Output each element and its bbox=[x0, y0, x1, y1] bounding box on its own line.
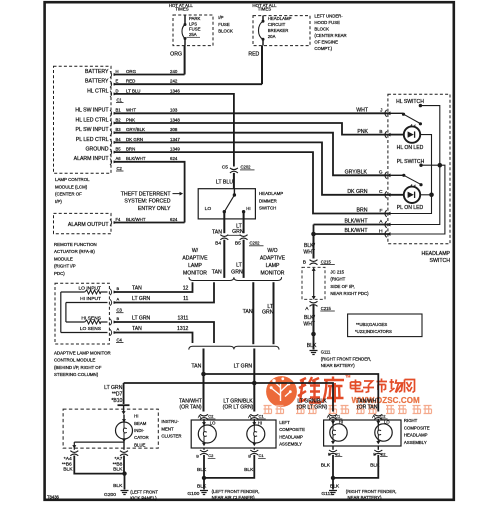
svg-text:F: F bbox=[380, 208, 383, 214]
svg-text:G: G bbox=[379, 170, 383, 176]
svg-text:CIRCUIT: CIRCUIT bbox=[268, 22, 286, 27]
svg-text:I/P): I/P) bbox=[55, 199, 62, 204]
svg-text:RED: RED bbox=[248, 52, 259, 58]
svg-text:BRN: BRN bbox=[126, 147, 135, 152]
svg-text:DIMMER: DIMMER bbox=[259, 198, 277, 203]
svg-text:C1: C1 bbox=[335, 414, 341, 419]
wire LT GRN from HI through C202 bbox=[243, 212, 245, 234]
svg-text:12: 12 bbox=[183, 285, 189, 291]
svg-text:(RIGHT FRONT FENDER,: (RIGHT FRONT FENDER, bbox=[346, 489, 397, 494]
svg-text:WHT: WHT bbox=[126, 108, 136, 113]
left composite headlamp box bbox=[191, 420, 276, 448]
svg-text:TIMES: TIMES bbox=[175, 7, 188, 12]
svg-text:C3: C3 bbox=[117, 308, 123, 313]
svg-text:B5: B5 bbox=[235, 241, 241, 247]
svg-text:(OR TAN): (OR TAN) bbox=[357, 405, 379, 411]
svg-text:308: 308 bbox=[170, 127, 178, 132]
svg-text:103: 103 bbox=[170, 108, 178, 113]
svg-text:1347: 1347 bbox=[170, 137, 180, 142]
svg-text:624: 624 bbox=[170, 217, 178, 222]
svg-text:1311: 1311 bbox=[177, 315, 188, 321]
svg-text:SIDE OF I/P,: SIDE OF I/P, bbox=[330, 284, 354, 289]
svg-text:BLOCK: BLOCK bbox=[314, 27, 329, 32]
svg-text:B5: B5 bbox=[116, 147, 122, 152]
svg-text:ORG: ORG bbox=[170, 51, 182, 57]
wire TAN 12 to option brace bbox=[114, 282, 193, 292]
svg-text:A6: A6 bbox=[116, 156, 122, 161]
svg-text:ASSEMBLY: ASSEMBLY bbox=[404, 440, 427, 445]
wire DK GRN 1347 to HL switch pin C bbox=[114, 142, 404, 194]
wire HI SENS with coil bbox=[66, 321, 85, 323]
svg-text:PL ON LED: PL ON LED bbox=[397, 205, 424, 211]
svg-text:HEADLAMP: HEADLAMP bbox=[268, 16, 292, 21]
svg-text:ENTRY ONLY: ENTRY ONLY bbox=[138, 206, 171, 212]
svg-text:C2: C2 bbox=[208, 414, 214, 419]
svg-text:C1: C1 bbox=[259, 453, 265, 458]
svg-text:COMPOSITE: COMPOSITE bbox=[404, 425, 430, 430]
svg-text:B4: B4 bbox=[116, 137, 122, 142]
svg-text:G200: G200 bbox=[104, 492, 116, 498]
svg-text:INSTRU-: INSTRU- bbox=[161, 419, 179, 424]
svg-text:GRN: GRN bbox=[231, 269, 243, 275]
svg-text:B: B bbox=[303, 260, 306, 266]
svg-text:OF ENGINE: OF ENGINE bbox=[314, 40, 338, 45]
wire PNK 1348 to HL switch pin B bbox=[114, 123, 404, 135]
module adaptive lamp monitor dashed box bbox=[55, 283, 109, 344]
svg-text:E: E bbox=[116, 79, 119, 84]
cluster connector pins A4 B6 bbox=[70, 451, 78, 453]
PL switch contact bbox=[389, 174, 403, 176]
svg-text:C1: C1 bbox=[117, 97, 123, 102]
svg-text:CLUSTER: CLUSTER bbox=[161, 434, 181, 439]
svg-text:STEERING COLUMN): STEERING COLUMN) bbox=[54, 372, 99, 377]
left headlamp connectors A C2 / A C1 bbox=[200, 414, 208, 416]
svg-text:25A: 25A bbox=[189, 32, 197, 37]
svg-text:ADAPTIVE: ADAPTIVE bbox=[182, 256, 208, 262]
svg-text:(OR LT GRN): (OR LT GRN) bbox=[223, 405, 254, 411]
svg-text:240: 240 bbox=[170, 69, 178, 74]
wire RED row E bbox=[114, 83, 263, 85]
svg-text:NEAR BATTERY): NEAR BATTERY) bbox=[348, 495, 383, 500]
svg-text:BEAM: BEAM bbox=[134, 421, 147, 426]
svg-text:W/: W/ bbox=[192, 248, 199, 254]
wire ORG row H bbox=[114, 74, 185, 76]
wire TAN from lower brace to TAN bus bbox=[203, 349, 205, 375]
svg-text:ALARM INPUT: ALARM INPUT bbox=[74, 156, 110, 162]
svg-text:C1: C1 bbox=[335, 451, 341, 456]
svg-text:LT GRN: LT GRN bbox=[132, 296, 151, 302]
svg-text:C2: C2 bbox=[380, 451, 386, 456]
svg-text:GRN: GRN bbox=[262, 310, 274, 316]
switch HL SWITCH dashed box bbox=[388, 94, 450, 244]
switch headlamp dimmer box bbox=[198, 189, 255, 219]
svg-text:**UB3;GAUGES: **UB3;GAUGES bbox=[356, 322, 387, 327]
svg-text:C: C bbox=[379, 189, 383, 195]
svg-text:H: H bbox=[116, 69, 119, 74]
svg-text:BATTERY: BATTERY bbox=[85, 69, 109, 75]
svg-text:LT GRN: LT GRN bbox=[132, 315, 151, 321]
wire LT BLU row D to C202 bbox=[114, 94, 234, 167]
wire HI INPUT bbox=[66, 302, 108, 304]
svg-text:PL LED CTRL: PL LED CTRL bbox=[76, 137, 109, 143]
svg-text:COMPOSITE: COMPOSITE bbox=[279, 427, 305, 432]
upper option brace bbox=[189, 277, 282, 280]
svg-text:LT BLU: LT BLU bbox=[216, 180, 233, 186]
svg-text:(OR LT GRN): (OR LT GRN) bbox=[297, 405, 328, 411]
bulb HI (left) bbox=[253, 419, 255, 426]
HL switch contact bbox=[389, 112, 403, 114]
wire BLK/WHT 624 alarm input bbox=[114, 162, 185, 223]
svg-text:LO: LO bbox=[384, 419, 390, 424]
svg-text:LT BLU: LT BLU bbox=[126, 88, 140, 93]
circuit breaker HEADLAMP CIRCUIT BREAKER 20A bbox=[262, 16, 264, 21]
svg-text:BATTERY: BATTERY bbox=[85, 79, 109, 85]
LED PL ON LED bbox=[389, 194, 404, 196]
fuse PARK LPS FUSE 25A bbox=[184, 15, 186, 24]
svg-text:BLK: BLK bbox=[307, 343, 317, 349]
wire LT GRN from lower brace to LT GRN bus bbox=[253, 349, 255, 384]
svg-text:C202: C202 bbox=[241, 165, 252, 170]
wire GRY/BLK 308 to HL switch pin G bbox=[114, 133, 390, 176]
wire LT GRN 11 to option brace bbox=[114, 282, 215, 302]
I/P fuse block dashed box bbox=[173, 15, 213, 46]
svg-text:CONTROL MODULE: CONTROL MODULE bbox=[54, 358, 95, 363]
svg-text:WHT: WHT bbox=[356, 108, 369, 114]
svg-text:NEAR AIR CLEANER): NEAR AIR CLEANER) bbox=[212, 495, 256, 500]
svg-text:HI: HI bbox=[258, 420, 262, 425]
svg-text:B: B bbox=[379, 129, 382, 135]
svg-text:LO: LO bbox=[205, 206, 212, 212]
svg-text:DK GRN: DK GRN bbox=[347, 189, 367, 195]
svg-text:SWITCH: SWITCH bbox=[430, 258, 451, 264]
svg-text:HL CTRL: HL CTRL bbox=[87, 88, 109, 94]
ground G111 (lower) bbox=[328, 490, 330, 492]
svg-text:BRN: BRN bbox=[357, 208, 368, 214]
svg-text:LT GRN/BLK: LT GRN/BLK bbox=[223, 398, 253, 404]
svg-text:TAN/WHT: TAN/WHT bbox=[179, 398, 202, 404]
svg-text:*A7: *A7 bbox=[115, 456, 123, 462]
svg-text:B: B bbox=[117, 316, 120, 321]
svg-text:ASSEMBLY: ASSEMBLY bbox=[279, 442, 302, 447]
svg-text:TAN: TAN bbox=[191, 364, 201, 370]
svg-text:B3: B3 bbox=[116, 127, 122, 132]
svg-text:B: B bbox=[196, 453, 199, 458]
svg-text:C2: C2 bbox=[117, 166, 123, 171]
watermark brand text 维库 bbox=[298, 377, 344, 403]
svg-text:(CENTER OF: (CENTER OF bbox=[55, 192, 82, 197]
svg-text:LEFT UNDER-: LEFT UNDER- bbox=[314, 14, 343, 19]
svg-text:ADAPTIVE LAMP MONITOR: ADAPTIVE LAMP MONITOR bbox=[54, 351, 111, 356]
wire LT GRN 1311 to lower brace bbox=[114, 322, 215, 343]
svg-text:LEFT: LEFT bbox=[279, 420, 290, 425]
wire WHT 103 to HL switch pin J bbox=[114, 112, 390, 114]
svg-text:ADAPTIVE: ADAPTIVE bbox=[260, 256, 286, 262]
svg-text:PL SW INPUT: PL SW INPUT bbox=[76, 127, 110, 133]
wire TAN w/o option bbox=[252, 282, 254, 344]
cluster connector pins A7 B8 bbox=[120, 451, 128, 453]
svg-text:PNK: PNK bbox=[126, 117, 135, 122]
svg-text:B4: B4 bbox=[215, 241, 221, 247]
svg-text:TAN: TAN bbox=[132, 285, 142, 291]
svg-text:C215: C215 bbox=[321, 306, 332, 311]
svg-text:BLK: BLK bbox=[197, 467, 207, 473]
svg-text:H: H bbox=[379, 228, 383, 234]
svg-text:BLK: BLK bbox=[321, 462, 331, 468]
svg-text:1346: 1346 bbox=[170, 88, 180, 93]
svg-text:DK GRN: DK GRN bbox=[126, 137, 143, 142]
LED HL ON LED bbox=[389, 134, 404, 136]
bus wire LT GRN to cluster and right headlamp bbox=[252, 381, 257, 386]
svg-text:I/P: I/P bbox=[218, 15, 223, 20]
svg-text:BLK/WHT: BLK/WHT bbox=[126, 156, 146, 161]
watermark text dianzishichangwang bbox=[351, 379, 415, 393]
bulb LO (right) bbox=[377, 419, 379, 425]
svg-text:HL ON LED: HL ON LED bbox=[397, 145, 424, 151]
svg-text:MODULE: MODULE bbox=[54, 256, 73, 261]
connector C215 pin A bbox=[310, 301, 318, 303]
svg-text:MODULE (LCM): MODULE (LCM) bbox=[55, 184, 88, 189]
svg-text:LAMP: LAMP bbox=[266, 263, 280, 269]
svg-text:HI: HI bbox=[246, 206, 250, 211]
svg-text:C1: C1 bbox=[259, 414, 265, 419]
svg-text:(OR TAN): (OR TAN) bbox=[179, 405, 201, 411]
svg-text:(BEHIND I/P, RIGHT OF: (BEHIND I/P, RIGHT OF bbox=[54, 365, 102, 370]
svg-text:CATOR: CATOR bbox=[134, 435, 149, 440]
svg-text:BLK: BLK bbox=[197, 484, 207, 490]
svg-text:MONITOR: MONITOR bbox=[261, 270, 285, 276]
dimmer switch lever bbox=[233, 189, 235, 195]
svg-text:LT GRN/BLK: LT GRN/BLK bbox=[297, 398, 327, 404]
svg-text:TIMES: TIMES bbox=[258, 7, 271, 12]
svg-text:LT GRN: LT GRN bbox=[104, 385, 123, 391]
svg-text:MENT: MENT bbox=[161, 426, 174, 431]
svg-text:TAN: TAN bbox=[243, 309, 253, 315]
svg-text:NEAR RIGHT PDC): NEAR RIGHT PDC) bbox=[330, 291, 369, 296]
watermark light slogan row bbox=[264, 406, 432, 414]
svg-text:BLK/: BLK/ bbox=[304, 243, 316, 249]
svg-text:LAMP: LAMP bbox=[188, 263, 202, 269]
svg-text:B: B bbox=[248, 453, 251, 458]
svg-text:242: 242 bbox=[170, 79, 178, 84]
svg-text:**D7: **D7 bbox=[112, 392, 123, 398]
svg-text:HEADLAMP: HEADLAMP bbox=[259, 191, 283, 196]
svg-text:MONITOR: MONITOR bbox=[183, 270, 207, 276]
svg-text:LT GRN: LT GRN bbox=[234, 364, 253, 370]
module RFA ALARM OUTPUT dashed box bbox=[54, 213, 112, 233]
svg-text:F4: F4 bbox=[116, 217, 122, 222]
svg-text:PDC): PDC) bbox=[54, 271, 65, 276]
svg-text:C2: C2 bbox=[380, 414, 386, 419]
svg-text:1349: 1349 bbox=[170, 147, 180, 152]
svg-text:BLK: BLK bbox=[330, 484, 340, 490]
svg-text:BLUE: BLUE bbox=[134, 442, 145, 447]
right headlamp connectors A C1 / A C2 bbox=[329, 414, 337, 416]
svg-text:PNK: PNK bbox=[357, 129, 368, 135]
svg-text:B2: B2 bbox=[116, 117, 122, 122]
svg-text:B: B bbox=[117, 286, 120, 291]
right headlamp bottom connectors B C1 / B C2 bbox=[332, 446, 334, 450]
svg-text:BLK/WHT: BLK/WHT bbox=[126, 217, 146, 222]
cluster ground branch wires bbox=[123, 439, 125, 450]
svg-text:SYSTEM: FORCED: SYSTEM: FORCED bbox=[124, 199, 170, 205]
svg-text:HEADLAMP: HEADLAMP bbox=[279, 434, 303, 439]
right composite headlamp box bbox=[324, 420, 401, 446]
wire TAN/WHT drop to left LO lamp bbox=[203, 374, 205, 412]
wire BLK/WHT down to C215 bbox=[313, 234, 315, 259]
wire BLK/WHT to HL switch pin A and H bbox=[314, 224, 390, 226]
svg-text:RED: RED bbox=[126, 79, 135, 84]
bulb LO (left) bbox=[203, 419, 205, 426]
svg-text:NEAR BATTERY): NEAR BATTERY) bbox=[321, 363, 356, 368]
bulb HI (right) bbox=[332, 419, 334, 425]
svg-text:G111: G111 bbox=[321, 491, 333, 497]
svg-text:GRY/BLK: GRY/BLK bbox=[345, 170, 368, 176]
svg-text:(LEFT FRONT: (LEFT FRONT bbox=[130, 489, 158, 494]
splice JC 215 dashed box with arrow bbox=[302, 267, 325, 299]
svg-text:HL SW INPUT: HL SW INPUT bbox=[75, 108, 109, 114]
svg-text:LT: LT bbox=[236, 263, 242, 269]
wire LO INPUT with coil bbox=[61, 291, 85, 293]
svg-text:(CENTER REAR: (CENTER REAR bbox=[314, 33, 346, 38]
svg-text:C4: C4 bbox=[117, 337, 123, 342]
svg-text:20A: 20A bbox=[268, 34, 276, 39]
svg-text:ORG: ORG bbox=[126, 69, 137, 74]
wire TAN 1312 to lower brace bbox=[114, 333, 193, 344]
svg-text:REMOTE FUNCTION: REMOTE FUNCTION bbox=[54, 242, 97, 247]
svg-text:(RIGHT I/P: (RIGHT I/P bbox=[54, 264, 76, 269]
svg-text:INDI-: INDI- bbox=[134, 428, 145, 433]
wire LT GRN w/o option bbox=[273, 282, 275, 344]
svg-text:RIGHT: RIGHT bbox=[404, 418, 418, 423]
svg-text:G111: G111 bbox=[321, 349, 331, 354]
svg-text:B: B bbox=[328, 452, 331, 457]
ground G200 bbox=[120, 490, 122, 492]
svg-text:LO SENS: LO SENS bbox=[80, 326, 102, 332]
svg-text:HL LED CTRL: HL LED CTRL bbox=[76, 117, 109, 123]
svg-text:W/O: W/O bbox=[267, 248, 277, 254]
wire BLK to ground G200 bbox=[124, 474, 126, 490]
svg-text:BLK: BLK bbox=[113, 483, 123, 489]
svg-text:LAMP CONTROL: LAMP CONTROL bbox=[55, 177, 90, 182]
svg-text:HI: HI bbox=[134, 414, 138, 419]
svg-text:D: D bbox=[116, 88, 119, 93]
svg-text:WHT: WHT bbox=[303, 249, 315, 255]
wire BLK cluster grounds join bbox=[74, 456, 124, 474]
svg-text:BLK: BLK bbox=[113, 467, 123, 473]
svg-text:BLOCK: BLOCK bbox=[218, 29, 233, 34]
ground G111 (upper) bbox=[309, 350, 311, 352]
svg-text:624: 624 bbox=[170, 156, 178, 161]
ground G100 bbox=[199, 490, 201, 492]
wire LT GRN/BLK drop to left HI lamp bbox=[253, 383, 255, 412]
svg-text:C202: C202 bbox=[250, 241, 261, 246]
lower option brace bbox=[189, 346, 279, 349]
module instrument cluster dashed box bbox=[63, 409, 158, 448]
svg-text:GROUND: GROUND bbox=[85, 147, 108, 153]
svg-text:TM: TM bbox=[345, 375, 350, 379]
wire BRN 1349 to HL switch pin F bbox=[114, 152, 390, 213]
svg-text:TAN: TAN bbox=[132, 326, 142, 332]
svg-text:C215: C215 bbox=[321, 259, 332, 264]
svg-text:11: 11 bbox=[183, 296, 188, 302]
svg-text:COMPT.): COMPT.) bbox=[314, 46, 332, 51]
svg-text:(RIGHT FRONT FENDER,: (RIGHT FRONT FENDER, bbox=[321, 356, 372, 361]
svg-text:B: B bbox=[373, 452, 376, 457]
svg-text:(RIGHT: (RIGHT bbox=[330, 277, 345, 282]
underhood fuse block dashed box bbox=[253, 16, 310, 46]
bulb HI BEAM INDICATOR BLUE bbox=[123, 415, 125, 423]
svg-text:BLK: BLK bbox=[244, 467, 254, 473]
svg-text:(LEFT FRONT FENDER,: (LEFT FRONT FENDER, bbox=[212, 489, 260, 494]
svg-text:HOOD FUSE: HOOD FUSE bbox=[314, 20, 340, 25]
svg-text:HI INPUT: HI INPUT bbox=[80, 296, 101, 302]
svg-text:*B10: *B10 bbox=[111, 398, 122, 404]
svg-text:*U23;INDICATORS: *U23;INDICATORS bbox=[355, 329, 392, 334]
svg-text:HEADLAMP: HEADLAMP bbox=[421, 251, 450, 257]
svg-text:*A4: *A4 bbox=[64, 456, 72, 462]
svg-text:BLK: BLK bbox=[63, 467, 73, 473]
svg-text:LO: LO bbox=[210, 420, 216, 425]
svg-text:BREAKER: BREAKER bbox=[268, 28, 289, 33]
svg-text:JC 215: JC 215 bbox=[330, 270, 344, 275]
svg-text:BLK/WHT: BLK/WHT bbox=[344, 219, 368, 225]
svg-text:BLK/WHT: BLK/WHT bbox=[344, 228, 368, 234]
svg-text:B1: B1 bbox=[116, 108, 122, 113]
svg-text:T8436: T8436 bbox=[47, 495, 60, 500]
svg-text:1348: 1348 bbox=[170, 117, 180, 122]
wire LO SENS bbox=[61, 332, 108, 334]
svg-text:C2: C2 bbox=[208, 453, 214, 458]
svg-text:ACTUATOR (RFA-B): ACTUATOR (RFA-B) bbox=[54, 249, 95, 254]
svg-text:GRN: GRN bbox=[232, 229, 244, 235]
svg-text:A: A bbox=[117, 296, 120, 301]
svg-text:TAN/WHT: TAN/WHT bbox=[357, 398, 380, 404]
module LCM dashed box bbox=[54, 66, 112, 173]
svg-text:FUSE: FUSE bbox=[218, 22, 230, 27]
svg-text:KICK PANEL): KICK PANEL) bbox=[130, 495, 157, 500]
svg-text:GRY/BLK: GRY/BLK bbox=[126, 127, 145, 132]
svg-text:THEFT DETERRENT: THEFT DETERRENT bbox=[121, 191, 172, 197]
svg-text:C5: C5 bbox=[222, 165, 229, 171]
svg-text:G100: G100 bbox=[187, 491, 199, 497]
svg-text:ALARM OUTPUT: ALARM OUTPUT bbox=[68, 222, 109, 228]
watermark logo disc bbox=[264, 375, 432, 414]
wire TAN from LO through C202 bbox=[223, 212, 225, 234]
svg-text:TAN: TAN bbox=[212, 269, 222, 275]
left headlamp bottom connectors B C2 / B C1 bbox=[203, 448, 205, 450]
svg-text:SWITCH: SWITCH bbox=[259, 206, 276, 211]
svg-text:1312: 1312 bbox=[177, 326, 188, 332]
note box UB3 GAUGES U23 INDICATORS bbox=[348, 314, 422, 337]
svg-text:HI: HI bbox=[339, 419, 343, 424]
svg-text:HEADLAMP: HEADLAMP bbox=[404, 433, 428, 438]
internal loop wires bbox=[60, 292, 62, 333]
bus wire TAN to right headlamp bbox=[201, 372, 206, 377]
svg-text:A: A bbox=[117, 326, 120, 331]
